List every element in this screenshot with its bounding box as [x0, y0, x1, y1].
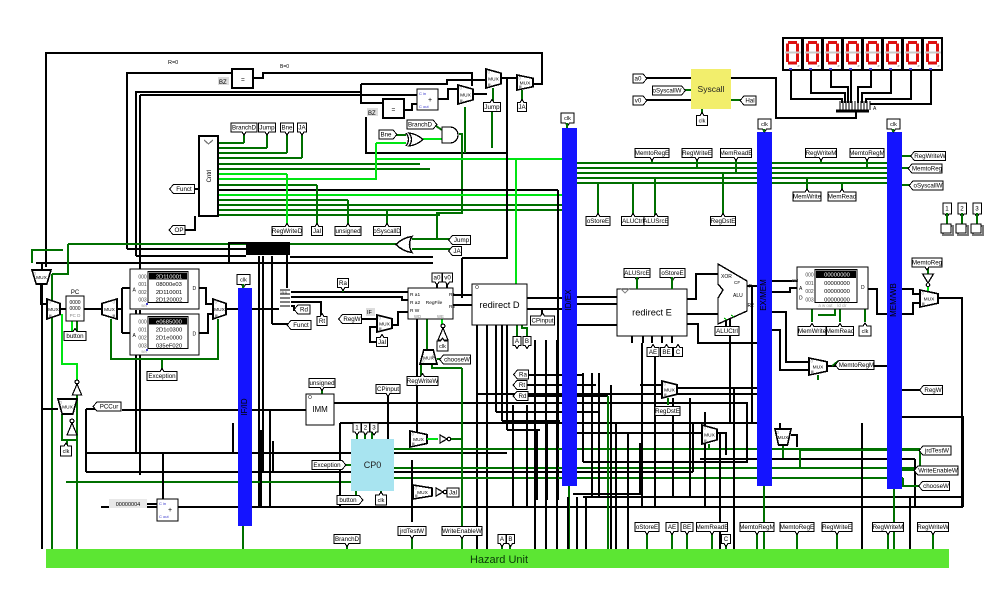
wire XOR out to AND — [423, 138, 443, 140]
wire x734 — [733, 388, 735, 549]
wire x547b — [546, 423, 548, 500]
svg-text:clk: clk — [63, 449, 70, 455]
wire x642 — [641, 343, 643, 508]
wire outer top loop — [46, 53, 542, 267]
svg-text:WD: WD — [414, 314, 421, 319]
stem PC button — [76, 321, 78, 334]
not gate small a — [440, 435, 447, 443]
svg-text:AE: AE — [649, 349, 657, 356]
svg-text:clk: clk — [862, 329, 869, 335]
label MemWrite — [798, 324, 826, 336]
stem unsigned IMM — [321, 389, 323, 394]
wire mem mux out — [827, 365, 887, 367]
svg-text:MUX: MUX — [379, 322, 390, 328]
wire x915 — [914, 459, 916, 507]
wire const to adder — [147, 503, 157, 505]
splitter fan line — [280, 301, 290, 303]
mux fwd A — [702, 425, 717, 444]
label clk — [437, 338, 448, 351]
wire MEMWB to WB mux upper — [902, 289, 920, 294]
label MemtoReg — [908, 164, 942, 173]
wire rD out right y309 — [527, 308, 562, 310]
bus bundle ID/EX to EX/MEM — [577, 162, 757, 164]
wire redirectE to ALU bottom — [687, 313, 718, 315]
wire bright x62 to NOT1 — [62, 314, 77, 380]
label oStoreE — [660, 269, 685, 281]
label Jump — [449, 236, 471, 245]
svg-text:001: 001 — [138, 282, 147, 288]
stem Jump label to bus — [491, 112, 493, 148]
wire x720 — [719, 433, 721, 549]
stem Ra label — [342, 288, 344, 292]
svg-text:v0: v0 — [635, 98, 642, 105]
svg-text:RegFile: RegFile — [426, 300, 443, 306]
label MemtoRegE — [635, 149, 669, 161]
svg-text:MemtoRegM: MemtoRegM — [739, 524, 774, 531]
wire v0 stem — [446, 283, 448, 289]
svg-text:Jal: Jal — [378, 339, 386, 346]
svg-text:MUX: MUX — [813, 365, 824, 371]
stem MemWrite ram — [811, 309, 813, 322]
label RegWriteW — [407, 374, 438, 386]
wire x42 to PCCur mux — [42, 408, 58, 410]
svg-text:ALUCtrl: ALUCtrl — [716, 328, 738, 335]
wire Rt to regfile — [291, 297, 408, 300]
splitter fan line — [280, 305, 290, 307]
wire x577 — [576, 497, 578, 549]
svg-text:Jal: Jal — [449, 490, 457, 497]
svg-text:Funct: Funct — [176, 186, 192, 193]
stem bottom label — [461, 536, 463, 549]
wire x611 — [610, 385, 612, 549]
svg-text:Jump: Jump — [454, 237, 470, 244]
label MemtoRegE — [780, 523, 814, 535]
label 2 — [958, 203, 967, 217]
label AE — [647, 345, 659, 357]
stem oStoreE — [671, 277, 673, 289]
stem BranchD label — [243, 132, 245, 143]
wire y92 to x361 — [136, 92, 361, 256]
stem unsigned — [347, 200, 349, 227]
stem button — [946, 213, 948, 224]
bus bundle EX/MEM to MEM/WB — [772, 162, 887, 164]
wire x85 — [85, 453, 87, 472]
stem JA label — [301, 132, 303, 158]
svg-text:a0: a0 — [635, 76, 642, 83]
svg-text:BranchD: BranchD — [232, 125, 257, 132]
label Ra — [338, 279, 349, 291]
svg-text:button: button — [66, 333, 84, 340]
wire clk stem — [380, 491, 382, 496]
label Jump — [484, 100, 501, 112]
mux cp0 a — [410, 431, 427, 447]
svg-text:Rt: Rt — [319, 318, 325, 325]
redirect E bottom stubs — [631, 336, 633, 343]
svg-text:D: D — [799, 295, 803, 301]
svg-text:ALUSrcE: ALUSrcE — [624, 270, 649, 277]
svg-text:2D110001: 2D110001 — [156, 290, 182, 296]
wire buf to mux — [927, 287, 929, 291]
svg-text:RegW: RegW — [343, 316, 360, 323]
wire x86 down to y453 — [85, 409, 87, 453]
wire BZ1 output staircase to mux1 — [253, 73, 472, 86]
svg-text:redirect D: redirect D — [479, 300, 520, 310]
stem bottom label — [686, 532, 688, 549]
svg-text:B: B — [508, 536, 512, 543]
svg-text:chooseW: chooseW — [444, 357, 470, 364]
stem EXMEM to hazard — [763, 486, 765, 549]
label RegWriteW — [911, 152, 946, 161]
stem MemRead ram — [839, 309, 841, 322]
label RegWriteM — [873, 523, 904, 535]
svg-text:Syscall: Syscall — [698, 84, 725, 94]
svg-text:=: = — [241, 77, 245, 84]
wire rD out y403 — [487, 402, 748, 404]
label unsigned — [335, 224, 361, 236]
label clk — [376, 492, 387, 505]
seven-seg digit 7 — [903, 38, 922, 70]
svg-text:oStoreE: oStoreE — [661, 270, 683, 277]
wire RegW right — [902, 389, 924, 391]
wire y257 — [290, 256, 433, 258]
svg-text:000: 000 — [138, 274, 147, 280]
control unit — [199, 136, 218, 216]
svg-text:C in: C in — [159, 501, 166, 506]
svg-text:chooseW: chooseW — [923, 483, 949, 490]
wire x537b — [536, 430, 538, 500]
label Jal — [312, 224, 323, 236]
label RegWriteW — [918, 523, 949, 535]
stem MemtoRegM mux — [817, 375, 819, 380]
label RegW — [339, 315, 362, 324]
label ALUCtrl — [715, 327, 739, 336]
label clk IFID — [237, 275, 250, 288]
stem bottom label — [836, 532, 838, 549]
stem mux14 — [708, 444, 710, 449]
wires seven-seg to splitter — [791, 70, 842, 103]
label button PC — [64, 329, 86, 341]
label oStoreE — [586, 214, 610, 226]
wire x513 — [512, 405, 514, 507]
wire mux15 out — [791, 435, 797, 447]
bus bright y159 — [376, 158, 562, 160]
wire right frame — [902, 417, 963, 507]
svg-text:oSyscallD: oSyscallD — [373, 228, 401, 235]
label unsigned — [309, 379, 335, 391]
svg-text:MemtoReg: MemtoReg — [912, 260, 943, 267]
wire x136 down — [135, 310, 137, 454]
wire x546 — [545, 340, 547, 549]
wire rD out y412 — [496, 411, 600, 413]
gate AND — [442, 127, 458, 143]
wire x752 down from ALU out — [751, 286, 753, 423]
label Hal — [740, 96, 756, 105]
svg-text:a w out ld clr: a w out ld clr — [818, 303, 847, 308]
svg-text:PC: PC — [71, 290, 80, 296]
wire oSyscallW to syscall — [684, 89, 691, 91]
wire IMM out — [334, 402, 583, 404]
svg-text:D: D — [193, 286, 197, 292]
comparator BZ2 — [383, 99, 404, 118]
stem bottom label — [756, 532, 758, 549]
wire x628 — [627, 433, 629, 549]
svg-text:AE: AE — [668, 524, 676, 531]
label 1 — [943, 203, 952, 217]
seven-seg digit 8 — [923, 38, 942, 70]
wire bright vertical to redirectD — [515, 159, 517, 284]
label Ra — [514, 370, 529, 379]
label OP — [169, 226, 185, 235]
wire mux to PCCur label — [86, 408, 98, 410]
label Bne — [379, 130, 397, 139]
stem Jump label up to mux2 — [492, 88, 494, 103]
label Jal — [377, 335, 388, 347]
wire x730 — [729, 286, 731, 423]
wire y256 to blob — [136, 255, 246, 257]
wire Jal to mux — [370, 327, 377, 342]
wire rom1 D to mux — [199, 288, 213, 304]
wire x780 — [779, 423, 781, 443]
wire x259 down — [258, 256, 260, 507]
wire mux13 out — [677, 387, 757, 389]
svg-text:001: 001 — [138, 328, 147, 334]
svg-text:WriteEnableW: WriteEnableW — [918, 468, 958, 475]
svg-text:JA: JA — [298, 125, 306, 132]
wire mux to PC — [60, 308, 66, 310]
wire label MemtoRegM — [832, 361, 838, 366]
label Funct — [170, 185, 195, 194]
stem cp0 1 — [371, 427, 373, 439]
syscall unit — [691, 69, 731, 109]
wire frame y153 — [366, 117, 507, 153]
label Jal — [447, 488, 459, 497]
stem PC bright — [71, 321, 73, 331]
wire BranchD to AND — [433, 124, 442, 130]
svg-text:BZ: BZ — [368, 111, 376, 117]
seven-seg digit 3 — [823, 38, 842, 70]
seven-seg digit 6 — [883, 38, 902, 70]
wire RegW to mux — [362, 318, 377, 320]
wire x412 into jrdTestW — [411, 460, 413, 522]
stem mux1 select — [464, 107, 466, 153]
stem oStoreE — [597, 183, 599, 217]
wire y433 long — [570, 432, 702, 434]
bus bundle control to ID/EX — [218, 142, 244, 144]
wire syscall clk — [701, 109, 703, 116]
wire regfile R1 to redirectD — [453, 294, 472, 296]
svg-text:R2: R2 — [449, 304, 455, 310]
label clk IDEX — [561, 113, 574, 126]
label oSyscallW — [653, 86, 686, 95]
wire y507 long — [101, 506, 963, 508]
svg-text:2D1c0300: 2D1c0300 — [156, 328, 182, 334]
wire x263 down — [262, 256, 264, 472]
svg-text:Bne: Bne — [281, 125, 293, 132]
svg-text:000: 000 — [138, 320, 147, 326]
wire x462 black down to R1 wire — [461, 258, 463, 298]
svg-text:MUX: MUX — [104, 307, 115, 313]
label MemtoRegM — [850, 149, 884, 161]
label JA — [518, 100, 527, 112]
wire x42 long down — [41, 263, 43, 549]
wire mux to regfile RW — [392, 312, 408, 325]
svg-text:C: C — [676, 349, 681, 356]
wire x507 down y258 — [462, 78, 507, 258]
svg-text:clk: clk — [699, 118, 706, 124]
svg-text:ALUCtrl: ALUCtrl — [622, 218, 644, 225]
label clk — [859, 323, 871, 336]
svg-text:Exception: Exception — [313, 462, 341, 469]
label JA — [449, 247, 462, 256]
wire x527 — [526, 405, 528, 507]
wire Rt right — [527, 384, 596, 386]
wire x920 seg — [919, 449, 921, 468]
svg-text:JA: JA — [518, 104, 526, 111]
svg-text:IF/ID: IF/ID — [240, 398, 249, 416]
wire not out — [451, 438, 462, 440]
not gate WE — [441, 324, 445, 328]
label MemtoRegM — [835, 361, 874, 370]
svg-text:clk: clk — [378, 498, 385, 504]
wire mux2 to mux3 — [502, 77, 517, 79]
wire y249 to blob — [127, 248, 246, 250]
label Rd — [513, 392, 528, 401]
ALU — [718, 264, 747, 324]
svg-text:MUX: MUX — [460, 93, 471, 99]
mux PC input — [47, 299, 60, 319]
stem clk EXMEM — [763, 129, 765, 132]
wire A stem green — [516, 324, 518, 336]
stem Exception label — [161, 359, 163, 372]
stem IFID to hazard — [242, 526, 244, 549]
label v0 — [443, 273, 453, 285]
wire x233 — [232, 423, 234, 453]
wire x163 — [162, 453, 164, 507]
svg-text:MemtoRegE: MemtoRegE — [780, 524, 814, 531]
wire muxS to pcmux — [41, 284, 47, 304]
svg-text:15:0: 15:0 — [280, 291, 287, 295]
label MemWrite — [793, 189, 821, 201]
svg-text:EX/MEM: EX/MEM — [759, 279, 768, 311]
wire to Rt label — [291, 302, 321, 315]
svg-text:clk: clk — [761, 122, 768, 128]
wire x747 — [746, 403, 748, 462]
label button — [337, 496, 363, 505]
label CPinput — [376, 385, 400, 397]
stem bottom label — [796, 532, 798, 549]
svg-text:MemtoRegE: MemtoRegE — [635, 150, 669, 157]
svg-text:clk: clk — [564, 116, 571, 122]
svg-text:D: D — [861, 285, 865, 291]
label RegWriteD — [272, 224, 302, 236]
mux cp0 b — [413, 485, 432, 499]
svg-text:Ra: Ra — [519, 372, 527, 379]
stem ALUSrcE — [636, 277, 638, 289]
wires redirect D bottom outputs — [476, 324, 478, 549]
wire WriteEnableW — [902, 469, 914, 471]
svg-text:XOR: XOR — [721, 274, 732, 280]
svg-text:IMM: IMM — [312, 405, 328, 414]
seven-seg digit 5 — [863, 38, 882, 70]
wire comparator2 to adder — [403, 104, 417, 110]
wire funct — [272, 323, 293, 325]
wire Exception to CP0 — [343, 464, 351, 466]
svg-text:R: R — [749, 284, 753, 290]
svg-text:WE: WE — [437, 314, 444, 319]
label B — [523, 337, 531, 349]
mux WB — [920, 290, 938, 307]
svg-text:oStoreE: oStoreE — [636, 524, 658, 531]
register file — [408, 288, 453, 319]
stem clk ram — [864, 309, 866, 322]
bus stubs right of MEM/WB — [902, 155, 914, 157]
stem bottom label — [932, 532, 934, 549]
svg-text:+: + — [168, 507, 172, 514]
wire WD down to mux — [426, 319, 428, 350]
wire x270 down — [269, 410, 271, 507]
wire x462 dark green — [461, 368, 463, 549]
svg-text:BZ: BZ — [219, 80, 227, 86]
not gate MemtoReg down — [923, 274, 934, 283]
wire long y263 — [36, 262, 433, 264]
wire v0 to syscall — [643, 99, 691, 101]
wire CP0 out y468 — [394, 467, 920, 469]
svg-text:2: 2 — [960, 206, 964, 213]
data RAM — [797, 267, 868, 309]
svg-text:MemtoRegM: MemtoRegM — [849, 150, 884, 157]
label RegW — [920, 386, 943, 395]
label chooseW — [440, 355, 471, 364]
wire to mem mux — [772, 312, 809, 362]
svg-text:=: = — [392, 107, 396, 114]
wire x583 — [582, 373, 584, 462]
wire x592 — [591, 373, 593, 497]
stem RegDstE — [667, 398, 669, 405]
svg-text:ID/EX: ID/EX — [564, 289, 573, 311]
label 2 — [362, 423, 370, 435]
wire RAM D out to WB mux lower — [868, 289, 920, 314]
wire y421 — [502, 420, 560, 422]
svg-text:oSyscallW: oSyscallW — [914, 183, 943, 190]
svg-text:RegWriteE: RegWriteE — [822, 524, 852, 531]
stem bottom label — [887, 532, 889, 549]
label oStoreE — [635, 523, 659, 535]
label clk — [697, 113, 708, 126]
stem bottom label — [646, 532, 648, 549]
label Funct — [287, 321, 311, 330]
mux instr — [213, 299, 226, 319]
wire mux1 to mux2 — [472, 93, 487, 95]
mux JR — [517, 75, 533, 90]
wire to mem mux b — [772, 330, 809, 370]
svg-text:PCCur: PCCur — [100, 404, 119, 411]
svg-text:PC D: PC D — [70, 313, 82, 318]
label jrdTestW — [919, 446, 951, 455]
svg-text:RH: RH — [792, 278, 798, 283]
label BE — [681, 523, 693, 535]
mux PCCur — [58, 399, 77, 414]
wire Funct to control — [195, 188, 199, 190]
svg-text:BE: BE — [683, 524, 691, 531]
wire x862 — [861, 423, 863, 549]
wire PC to mux2 — [84, 308, 102, 310]
svg-text:a0: a0 — [434, 275, 441, 282]
wire y497 — [583, 496, 962, 498]
svg-text:CPinput: CPinput — [531, 318, 553, 325]
wire CP0 out y478 — [394, 477, 903, 479]
wire a0 to syscall — [643, 77, 691, 79]
wire rD out y394 — [477, 393, 757, 395]
